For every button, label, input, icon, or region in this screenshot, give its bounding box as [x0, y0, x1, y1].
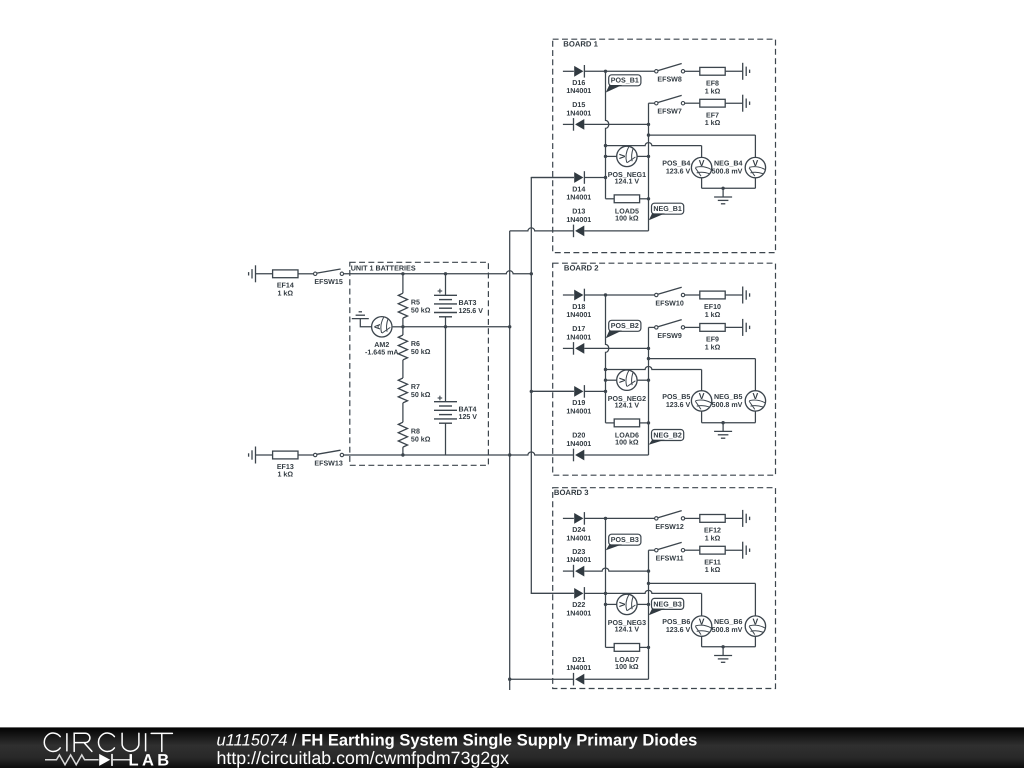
- svg-text:1N4001: 1N4001: [566, 556, 591, 564]
- logo resistor-diode motif: [45, 755, 99, 765]
- wire fuse to ground: [725, 70, 743, 72]
- node dot D18/POS_B2: [604, 293, 607, 296]
- net flag NEG_B1: [652, 203, 684, 214]
- svg-text:R7: R7: [411, 383, 420, 391]
- net flag NEG_B3: [652, 598, 684, 609]
- wire D18 row: [563, 294, 574, 296]
- wire fuse to ground: [725, 517, 743, 519]
- battery BAT4: [434, 401, 457, 403]
- svg-text:BAT3: BAT3: [459, 299, 477, 307]
- diode D18: [574, 290, 583, 301]
- dashed box UNIT 1 BATTERIES: [350, 262, 489, 465]
- wire BAT3- to BAT4+: [445, 317, 447, 402]
- svg-text:EF14: EF14: [277, 282, 294, 290]
- ground EF7: [742, 95, 744, 112]
- wire NEG meter feed: [649, 134, 756, 136]
- diode D14: [574, 172, 583, 183]
- wire R5-R6: [402, 318, 404, 335]
- wire D23 row: [563, 570, 574, 572]
- voltmeter POS_B5: [691, 391, 711, 411]
- svg-text:1 kΩ: 1 kΩ: [705, 119, 721, 127]
- node dot meter ground: [721, 645, 724, 648]
- switch EFSW10: [655, 293, 658, 296]
- svg-text:BAT4: BAT4: [459, 405, 477, 413]
- battery BAT3 plus mark: [438, 290, 443, 292]
- svg-text:EFSW12: EFSW12: [655, 523, 683, 531]
- svg-text:1 kΩ: 1 kΩ: [705, 343, 721, 351]
- voltmeter NEG_B6: [745, 616, 765, 636]
- fuse EF11: [700, 546, 725, 554]
- dashed box BOARD 2: [553, 263, 776, 475]
- resistor R5: [398, 293, 407, 318]
- wire EF14 to EFSW15: [298, 273, 314, 275]
- ammeter AM2 negative reference: [352, 318, 369, 320]
- wire R8 bottom stub: [402, 447, 404, 455]
- wire voltmeter commons: [701, 178, 703, 189]
- wire fuse to ground: [725, 326, 743, 328]
- wire to switch EFSW11: [649, 549, 655, 551]
- wire D21 row from bus B: [510, 678, 574, 680]
- wire switch to fuse EF9: [685, 326, 700, 328]
- wire meter row: [606, 603, 617, 605]
- svg-text:NEG_B4: NEG_B4: [714, 160, 742, 168]
- svg-text:D20: D20: [572, 432, 585, 440]
- ground meters: [714, 196, 732, 198]
- wire POS meter feed: [606, 366, 702, 369]
- wire switch to fuse EF11: [685, 549, 700, 551]
- node dot mid rail / bus B: [508, 325, 511, 328]
- wire D22 feed from bus A: [531, 592, 574, 594]
- fuse EF8: [700, 67, 725, 75]
- wire voltmeter commons: [701, 411, 703, 423]
- voltmeter POS_B6: [691, 616, 711, 636]
- node dot bus A / D19: [530, 390, 533, 393]
- diode D21: [575, 674, 584, 685]
- svg-text:1N4001: 1N4001: [566, 440, 591, 448]
- switch EFSW11: [655, 549, 658, 552]
- svg-text:UNIT 1 BATTERIES: UNIT 1 BATTERIES: [351, 263, 416, 272]
- svg-text:124.1 V: 124.1 V: [615, 626, 640, 634]
- ground EF12: [742, 510, 744, 527]
- svg-text:R5: R5: [411, 298, 420, 306]
- svg-text:1N4001: 1N4001: [566, 87, 591, 95]
- wire D16 row: [563, 70, 574, 72]
- voltmeter POS_B4: [691, 157, 711, 177]
- switch EFSW15: [314, 272, 317, 275]
- wire board NEG bus: [648, 550, 650, 679]
- wire board left bus: [606, 71, 609, 199]
- svg-text:BOARD 1: BOARD 1: [563, 39, 598, 48]
- wire BAT3 top stub: [445, 274, 447, 296]
- svg-text:100 kΩ: 100 kΩ: [615, 663, 639, 671]
- wire D22 row / POS meter feed: [531, 592, 574, 594]
- diode D19: [574, 386, 583, 397]
- svg-text:EFSW8: EFSW8: [657, 76, 681, 84]
- wire switch to fuse EF8: [685, 70, 700, 72]
- wire meter row: [606, 155, 617, 157]
- svg-text:NEG_B1: NEG_B1: [653, 205, 681, 213]
- diode D24: [574, 513, 583, 524]
- resistor LOAD6: [614, 419, 639, 427]
- wire ground stub: [722, 647, 724, 656]
- svg-text:1N4001: 1N4001: [566, 609, 591, 617]
- wire fuse to ground: [725, 294, 743, 296]
- node dot load/NEG_B2: [647, 421, 650, 424]
- svg-text:1 kΩ: 1 kΩ: [705, 566, 721, 574]
- ground meters: [714, 655, 732, 657]
- wire load row: [606, 646, 615, 648]
- svg-text:R8: R8: [411, 427, 420, 435]
- svg-text:123.6 V: 123.6 V: [666, 626, 691, 634]
- svg-text:EF9: EF9: [706, 336, 719, 344]
- battery BAT3: [434, 294, 457, 296]
- svg-text:D22: D22: [572, 601, 585, 609]
- logo CIRCUIT: [44, 733, 172, 751]
- ground EF10: [742, 287, 744, 304]
- svg-text:POS_B1: POS_B1: [611, 77, 639, 85]
- dashed box BOARD 1: [553, 39, 776, 252]
- fuse EF7: [700, 99, 725, 107]
- node dot D24/POS_B3: [604, 517, 607, 520]
- svg-text:1N4001: 1N4001: [566, 407, 591, 415]
- net flag POS_B2: [609, 320, 641, 331]
- wire ground to EF13: [256, 454, 273, 456]
- node dot D17: [647, 347, 650, 350]
- svg-text:EFSW15: EFSW15: [314, 278, 342, 286]
- wire board left bus: [605, 518, 607, 647]
- wire voltmeter commons: [701, 636, 703, 647]
- diode D22: [574, 588, 583, 599]
- wire D13 row from bus B: [510, 228, 574, 231]
- svg-text:EFSW9: EFSW9: [657, 332, 681, 340]
- wire bus B (mid node): [509, 231, 511, 690]
- svg-text:1 kΩ: 1 kΩ: [705, 87, 721, 95]
- svg-text:1N4001: 1N4001: [566, 311, 591, 319]
- wire AM2 minus terminal: [360, 319, 371, 327]
- voltmeter POS_NEG3: [617, 594, 637, 614]
- wire NEG meter feed: [649, 582, 756, 584]
- svg-text:NEG_B6: NEG_B6: [714, 618, 742, 626]
- wire D24 row: [563, 517, 574, 519]
- wire fuse to ground: [725, 102, 743, 104]
- wire D14 feed from bus A: [531, 177, 574, 179]
- svg-text:BOARD 3: BOARD 3: [554, 488, 589, 497]
- svg-text:124.1 V: 124.1 V: [615, 401, 640, 409]
- fuse EF14: [273, 270, 298, 278]
- svg-text:EFSW13: EFSW13: [314, 459, 342, 467]
- node dot bottom rail / bus B: [508, 453, 511, 456]
- svg-text:100 kΩ: 100 kΩ: [615, 215, 639, 223]
- wire switch to fuse EF7: [685, 102, 700, 104]
- wire NEG meter feed: [649, 358, 756, 360]
- wire D14 row: [531, 177, 574, 179]
- svg-text:D16: D16: [572, 79, 585, 87]
- svg-text:100 kΩ: 100 kΩ: [615, 439, 639, 447]
- svg-text:500.8 mV: 500.8 mV: [712, 168, 743, 176]
- svg-text:EF7: EF7: [706, 111, 719, 119]
- node dot D15: [647, 123, 650, 126]
- node dot load/NEG_B1: [647, 197, 650, 200]
- net flag POS_B3: [609, 534, 641, 545]
- wire load row: [606, 198, 615, 200]
- node dot meter ground: [721, 421, 724, 424]
- fuse EF10: [700, 291, 725, 299]
- svg-text:NEG_B2: NEG_B2: [653, 431, 681, 439]
- voltmeter POS_NEG1: [617, 146, 637, 166]
- node dot D16/POS_B1: [604, 70, 607, 73]
- svg-text:EFSW7: EFSW7: [657, 108, 681, 116]
- svg-text:500.8 mV: 500.8 mV: [712, 401, 743, 409]
- switch EFSW7: [655, 102, 658, 105]
- diode D23: [575, 566, 584, 577]
- svg-text:EFSW11: EFSW11: [656, 555, 684, 563]
- switch EFSW13: [314, 453, 317, 456]
- wire fuse to ground: [725, 549, 743, 551]
- switch EFSW9: [655, 326, 658, 329]
- resistor R7: [398, 378, 407, 403]
- ammeter AM2: [372, 317, 392, 337]
- wire meter row: [606, 379, 617, 381]
- wire mid rail BAT3- to bus B: [403, 326, 510, 328]
- resistor R6: [398, 335, 407, 360]
- fuse EF12: [700, 515, 725, 523]
- wire board left bus: [606, 295, 609, 423]
- wire AM2 to divider: [393, 326, 403, 328]
- svg-text:D18: D18: [572, 303, 585, 311]
- svg-text:50 kΩ: 50 kΩ: [411, 348, 431, 356]
- diode D15: [575, 119, 584, 130]
- node dot D19: [604, 390, 607, 393]
- svg-text:EF13: EF13: [277, 463, 294, 471]
- dashed box BOARD 3: [553, 488, 776, 689]
- wire board NEG bus: [648, 103, 650, 231]
- svg-text:1N4001: 1N4001: [566, 664, 591, 672]
- wire board NEG bus: [648, 327, 650, 455]
- wire ground stub: [722, 423, 724, 432]
- node dot D23: [647, 569, 650, 572]
- svg-text:POS_B3: POS_B3: [611, 536, 639, 544]
- wire D20 row right of diode: [584, 454, 648, 456]
- ground EF8: [742, 63, 744, 80]
- svg-text:EFSW10: EFSW10: [655, 299, 683, 307]
- svg-text:-1.645 mA: -1.645 mA: [365, 349, 399, 357]
- wire to switch EFSW9: [649, 326, 655, 328]
- svg-text:POS_B5: POS_B5: [662, 393, 690, 401]
- svg-text:D13: D13: [572, 208, 585, 216]
- svg-text:124.1 V: 124.1 V: [615, 178, 640, 186]
- wire R7-R8: [402, 403, 404, 422]
- svg-text:125 V: 125 V: [459, 413, 478, 421]
- resistor LOAD5: [614, 195, 639, 203]
- svg-text:1 kΩ: 1 kΩ: [278, 290, 294, 298]
- svg-text:BOARD 2: BOARD 2: [564, 263, 599, 272]
- wire BAT4- to bottom rail: [445, 423, 447, 455]
- diode D20: [575, 450, 584, 461]
- wire D19 feed from bus A: [531, 390, 574, 392]
- svg-text:1 kΩ: 1 kΩ: [278, 471, 294, 479]
- voltmeter NEG_B5: [745, 391, 765, 411]
- node dot BAT3- mid rail: [444, 325, 447, 328]
- svg-text:1 kΩ: 1 kΩ: [705, 311, 721, 319]
- wire load row: [606, 422, 615, 424]
- switch EFSW12: [655, 517, 658, 520]
- svg-text:1N4001: 1N4001: [566, 216, 591, 224]
- switch EFSW8: [655, 70, 658, 73]
- wire ground to EF14: [256, 273, 273, 275]
- svg-text:123.6 V: 123.6 V: [666, 401, 691, 409]
- node dot AM2/R5/R6: [401, 325, 404, 328]
- ground meters: [714, 430, 732, 432]
- voltmeter POS_NEG2: [617, 370, 637, 390]
- wire EF13 to EFSW13: [298, 454, 314, 456]
- net flag POS_B1: [609, 75, 641, 86]
- ground EF14: [255, 265, 257, 282]
- node dot R8 bottom: [401, 453, 404, 456]
- node dot top rail / bus A: [530, 272, 533, 275]
- node dot meter ground: [721, 187, 724, 190]
- svg-text:D17: D17: [572, 325, 585, 333]
- svg-text:D23: D23: [572, 548, 585, 556]
- wire D15 row: [563, 123, 574, 125]
- svg-text:D21: D21: [572, 656, 585, 664]
- diode D17: [575, 343, 584, 354]
- svg-text:50 kΩ: 50 kΩ: [411, 391, 431, 399]
- svg-text:123.6 V: 123.6 V: [666, 168, 691, 176]
- svg-text:1N4001: 1N4001: [566, 109, 591, 117]
- diode D13: [575, 226, 584, 237]
- svg-text:POS_B6: POS_B6: [662, 618, 690, 626]
- wire R6-R7: [402, 360, 404, 378]
- ground EF11: [742, 542, 744, 559]
- fuse EF13: [273, 451, 298, 459]
- node dot load/NEG_B3: [647, 646, 650, 649]
- wire R5 top stub: [402, 274, 404, 293]
- svg-text:1N4001: 1N4001: [566, 333, 591, 341]
- wire switch to fuse EF12: [685, 517, 700, 519]
- diode D16: [574, 66, 583, 77]
- resistor LOAD7: [614, 644, 639, 652]
- net flag NEG_B2: [652, 430, 684, 441]
- svg-text:125.6 V: 125.6 V: [459, 307, 484, 315]
- node dot BAT3 top: [444, 272, 447, 275]
- wire POS meter feed: [606, 143, 702, 146]
- svg-text:1N4001: 1N4001: [566, 193, 591, 201]
- svg-text:EF12: EF12: [704, 527, 721, 535]
- node dot D14: [604, 176, 607, 179]
- svg-text:POS_B4: POS_B4: [662, 160, 690, 168]
- wire ground stub: [722, 188, 724, 197]
- ground EF13: [255, 447, 257, 464]
- svg-text:NEG_B5: NEG_B5: [714, 393, 742, 401]
- svg-text:NEG_B3: NEG_B3: [653, 600, 681, 608]
- ground EF9: [742, 319, 744, 336]
- node dot D22: [604, 592, 607, 595]
- svg-text:1 kΩ: 1 kΩ: [705, 534, 721, 542]
- svg-text:1N4001: 1N4001: [566, 534, 591, 542]
- battery BAT4 plus mark: [438, 397, 443, 399]
- resistor R8: [398, 422, 407, 447]
- svg-text:POS_B2: POS_B2: [611, 322, 639, 330]
- svg-text:D15: D15: [572, 101, 585, 109]
- svg-text:LAB: LAB: [129, 751, 173, 768]
- node dot bus B / D21: [508, 678, 511, 681]
- wire to switch EFSW7: [649, 102, 655, 104]
- svg-text:50 kΩ: 50 kΩ: [411, 306, 431, 314]
- svg-text:EF11: EF11: [704, 558, 721, 566]
- svg-text:http://circuitlab.com/cwmfpdm7: http://circuitlab.com/cwmfpdm73g2gx: [217, 748, 510, 768]
- voltmeter NEG_B4: [745, 157, 765, 177]
- svg-text:50 kΩ: 50 kΩ: [411, 435, 431, 443]
- svg-text:EF8: EF8: [706, 80, 719, 88]
- svg-text:D24: D24: [572, 526, 585, 534]
- svg-text:D19: D19: [572, 399, 585, 407]
- wire D17 row: [563, 347, 574, 349]
- fuse EF9: [700, 324, 725, 332]
- node dot R5 top: [401, 272, 404, 275]
- svg-text:D14: D14: [572, 185, 585, 193]
- svg-text:500.8 mV: 500.8 mV: [712, 626, 743, 634]
- wire EFSW15 into battery box / top rail: [344, 271, 532, 274]
- wire bus A (positive node): [530, 178, 532, 594]
- wire D19 row: [531, 390, 574, 392]
- wire EFSW13 bottom rail to D20: [344, 452, 574, 455]
- svg-text:R6: R6: [411, 340, 420, 348]
- svg-text:EF10: EF10: [704, 303, 721, 311]
- wire switch to fuse EF10: [685, 294, 700, 296]
